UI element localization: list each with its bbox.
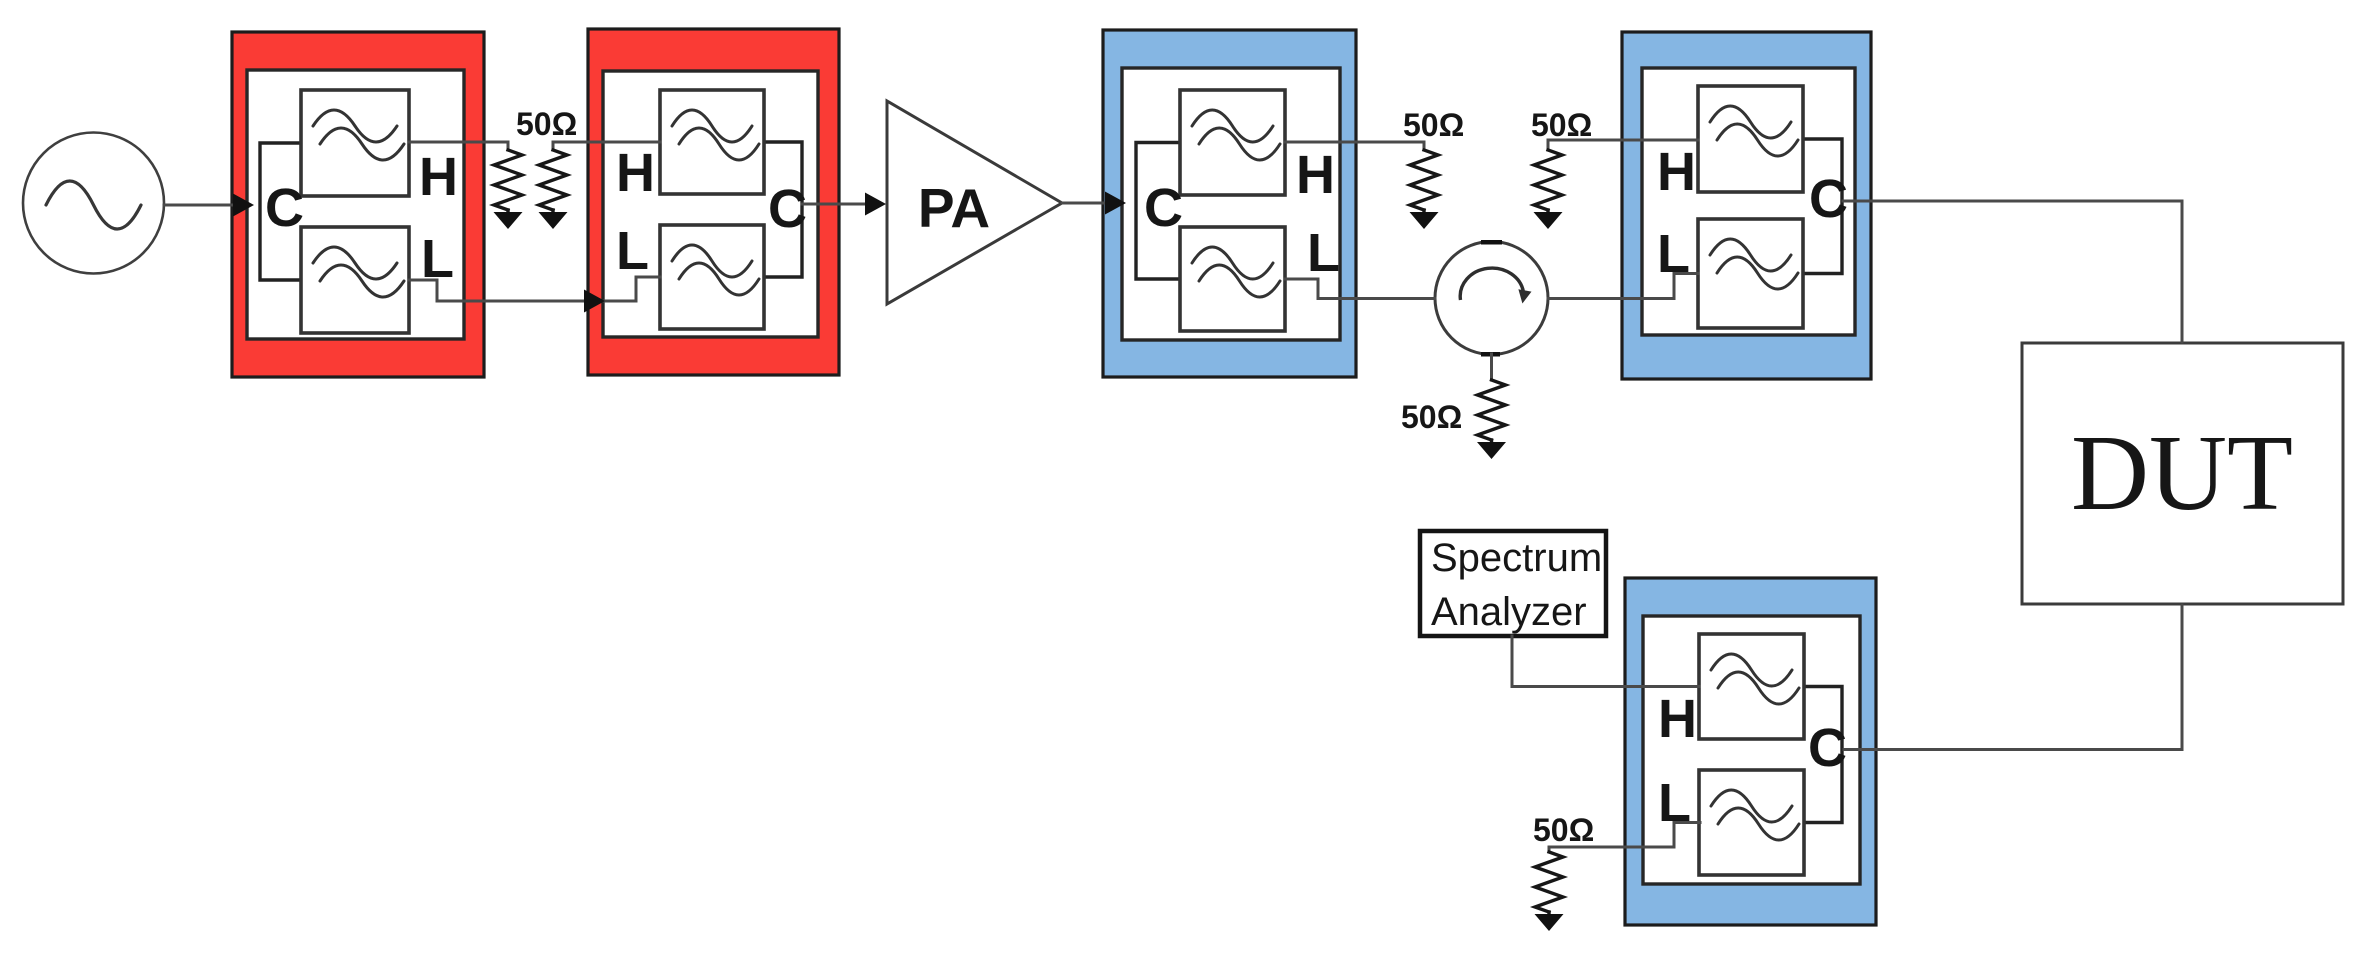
svg-text:H: H [1658, 689, 1697, 749]
svg-text:PA: PA [918, 177, 990, 239]
svg-text:H: H [1657, 142, 1696, 202]
svg-text:50Ω: 50Ω [1401, 399, 1462, 435]
svg-text:L: L [616, 221, 649, 281]
svg-text:H: H [616, 143, 655, 203]
svg-text:50Ω: 50Ω [1403, 107, 1464, 143]
svg-text:50Ω: 50Ω [516, 106, 577, 142]
svg-text:L: L [1307, 223, 1340, 283]
svg-text:H: H [1296, 145, 1335, 205]
svg-text:C: C [265, 178, 304, 238]
svg-text:50Ω: 50Ω [1533, 812, 1594, 848]
svg-text:L: L [1658, 773, 1691, 833]
svg-text:C: C [768, 179, 807, 239]
svg-text:C: C [1144, 178, 1183, 238]
svg-text:L: L [421, 229, 454, 289]
svg-text:50Ω: 50Ω [1531, 107, 1592, 143]
svg-text:C: C [1809, 169, 1848, 229]
svg-text:DUT: DUT [2071, 414, 2293, 533]
svg-text:H: H [419, 147, 458, 207]
svg-text:L: L [1657, 224, 1690, 284]
svg-text:C: C [1808, 718, 1847, 778]
svg-text:Analyzer: Analyzer [1431, 590, 1587, 634]
svg-text:Spectrum: Spectrum [1431, 536, 1602, 580]
